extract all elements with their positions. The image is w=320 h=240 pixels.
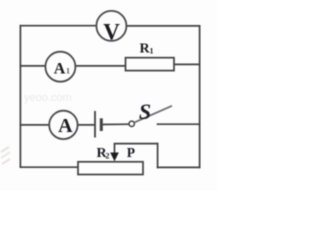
svg-text:1: 1: [66, 67, 70, 76]
wire: row3 right (switch to frame): [158, 123, 200, 125]
wire: left frame vertical: [19, 26, 21, 168]
svg-text:A: A: [58, 115, 73, 137]
ammeter A circle: [49, 111, 77, 139]
switch pivot contact: [129, 121, 134, 126]
battery long plate: [94, 111, 96, 138]
rheostat wiper arrow head: [110, 153, 119, 162]
switch lever: [134, 106, 172, 123]
wire: row3 left (frame to A): [20, 124, 49, 126]
ammeter A1 circle: [45, 52, 75, 82]
wire: wiper drop vertical: [157, 144, 159, 168]
wire: bottom right segment: [158, 166, 200, 168]
svg-text:1: 1: [150, 47, 154, 56]
svg-text:P: P: [127, 145, 135, 160]
wire: row3 (A to battery): [78, 124, 94, 126]
rheostat R2 box: [78, 162, 143, 175]
rheostat wiper arrow stem: [114, 144, 116, 153]
wire: top left segment: [20, 25, 96, 27]
svg-text:2: 2: [106, 152, 110, 161]
watermark mark left: [1, 147, 10, 164]
battery short plate: [100, 118, 103, 131]
wire: bottom left (frame to rheostat): [20, 166, 78, 168]
resistor R1 box: [126, 58, 175, 71]
wire: battery to switch: [102, 123, 130, 125]
wire: top right segment: [126, 25, 199, 27]
svg-text:A: A: [54, 61, 66, 78]
wire: row2 middle (A1 to R1): [75, 65, 125, 67]
wire: right frame vertical: [199, 26, 201, 168]
svg-text:yeoo.com: yeoo.com: [24, 92, 72, 104]
svg-text:S: S: [139, 99, 151, 124]
svg-text:V: V: [103, 19, 120, 44]
voltmeter V circle: [96, 11, 126, 41]
wire: row2 left (frame to A1): [20, 65, 45, 67]
wire: row2 right (R1 to frame): [174, 63, 200, 65]
wire: wiper horizontal: [115, 143, 158, 145]
